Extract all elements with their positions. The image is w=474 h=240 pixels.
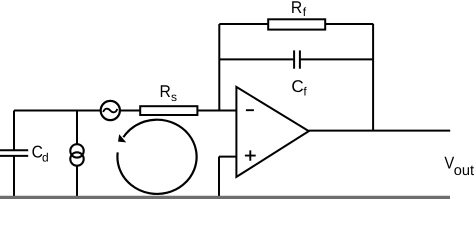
svg-text:s: s <box>171 90 177 104</box>
svg-text:f: f <box>303 85 307 99</box>
svg-text:C: C <box>291 77 303 96</box>
svg-text:d: d <box>42 151 49 165</box>
svg-text:R: R <box>160 82 171 101</box>
svg-text:f: f <box>303 5 307 19</box>
svg-text:out: out <box>454 163 474 179</box>
svg-text:R: R <box>291 0 302 17</box>
